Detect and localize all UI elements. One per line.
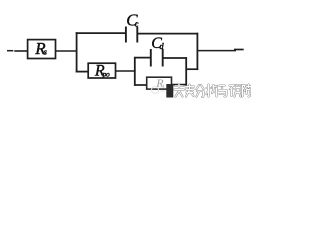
char 与 outer bbox=[219, 86, 227, 97]
wire inner top branch right bbox=[163, 57, 187, 59]
wire connector inner to outer rail bbox=[186, 68, 198, 70]
wire inner bottom branch left bbox=[134, 84, 147, 86]
char 失 outer bbox=[175, 85, 185, 97]
capacitor Cc bbox=[125, 27, 127, 43]
char 析 core bbox=[207, 85, 218, 97]
wire input lead bbox=[14, 50, 28, 52]
char 效 outer bbox=[186, 85, 195, 97]
svg-text:c: c bbox=[135, 19, 139, 29]
wire inner bottom branch right bbox=[172, 84, 188, 86]
wire top branch left bbox=[76, 32, 126, 34]
watermark text 失效分析与预防 bbox=[175, 85, 251, 98]
char 预 core bbox=[230, 85, 241, 97]
resistor Rpo bbox=[88, 63, 115, 78]
capacitor Cd bbox=[150, 49, 152, 67]
output terminal dash bbox=[234, 49, 244, 51]
svg-text:d: d bbox=[159, 41, 164, 51]
wire bottom branch left bbox=[76, 71, 89, 73]
char 分 core bbox=[197, 85, 204, 97]
wire inner right rail bbox=[185, 57, 187, 85]
wire inner left rail bbox=[134, 57, 136, 86]
svg-text:po: po bbox=[102, 69, 110, 78]
char 防 outer bbox=[243, 85, 251, 97]
wire output lead bbox=[197, 50, 236, 52]
char 分 outer bbox=[197, 85, 204, 97]
wire Rpo to inner left rail bbox=[116, 70, 136, 72]
char 失 core bbox=[175, 85, 185, 97]
char 预 outer bbox=[230, 85, 241, 97]
wire inner top branch left bbox=[134, 57, 151, 59]
watermark faint logo bbox=[152, 87, 166, 94]
watermark dark block bbox=[166, 84, 173, 98]
wire outer right rail bbox=[196, 33, 198, 70]
input terminal dash bbox=[7, 50, 13, 52]
wire top branch right bbox=[137, 33, 198, 35]
resistor Rt bbox=[147, 77, 172, 89]
char 效 core bbox=[186, 85, 195, 97]
char 与 core bbox=[219, 86, 227, 97]
wire outer left rail bbox=[76, 32, 78, 72]
wire Rs to left rail bbox=[56, 50, 78, 52]
char 防 core bbox=[243, 85, 251, 97]
watermark text white cores bbox=[175, 85, 251, 98]
char 析 outer bbox=[207, 85, 218, 97]
resistor Rs bbox=[28, 40, 56, 59]
